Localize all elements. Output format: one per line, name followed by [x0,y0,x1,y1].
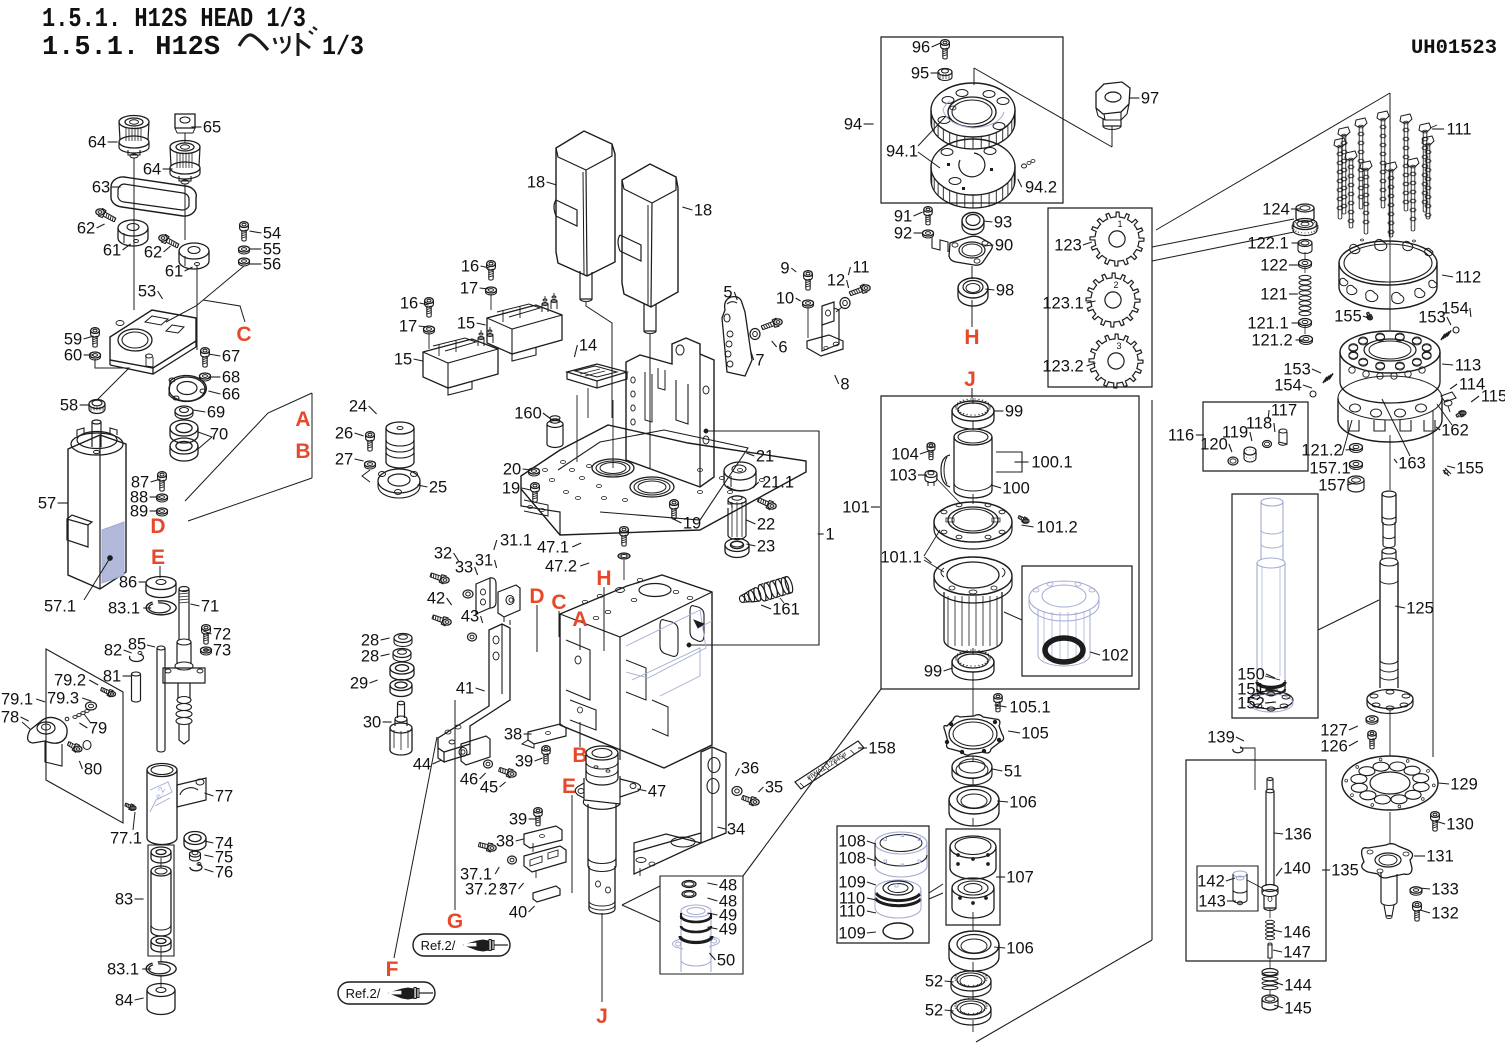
svg-text:52: 52 [925,1002,943,1020]
svg-text:36: 36 [741,760,759,778]
washer 47.2 [618,553,630,559]
knurled nut under 124 [1293,219,1317,230]
screw 115 [1460,411,1466,415]
plate 129 [1342,756,1438,810]
washer 33 [463,590,473,598]
svg-text:26: 26 [335,425,353,443]
svg-text:42: 42 [427,590,445,608]
svg-text:1: 1 [1117,219,1122,229]
bearing 98 [958,278,988,298]
lower frame block [560,575,712,768]
flange of shaft 125 [1367,690,1413,709]
box 78-80 parallelogram [46,649,123,823]
svg-text:98: 98 [996,282,1014,300]
part 24 damper stack [386,422,414,434]
svg-text:100: 100 [1002,480,1030,498]
valve 15 upper [487,305,562,354]
strip 158 [795,741,864,789]
leader 108 box to 107 [929,880,940,900]
svg-text:92: 92 [894,225,912,243]
svg-text:35: 35 [765,779,783,797]
box 101 [881,396,1139,689]
splined shaft 22 [728,496,746,504]
svg-text:152: 152 [1237,695,1265,713]
svg-text:147: 147 [1283,944,1311,962]
plate 38 upper [528,724,566,744]
washer 122 [1299,260,1312,267]
ring 83 bottom [151,936,171,946]
svg-text:124: 124 [1262,201,1290,219]
svg-text:12: 12 [827,272,845,290]
svg-text:115: 115 [1481,388,1505,406]
screw 35 [751,799,759,805]
spring 144 [1262,969,1278,976]
clip 82 [130,654,144,661]
washer 27 [365,461,376,467]
svg-text:64: 64 [88,134,106,152]
svg-text:17: 17 [460,280,478,298]
leader 48-50 box to box 101 [743,689,881,876]
leader 94.1 [918,116,946,146]
svg-text:9: 9 [780,260,789,278]
cylinder 83 main [151,866,171,876]
washer 89 [157,508,168,514]
nut 52 upper [951,971,991,991]
screw 132 [1413,902,1422,908]
wire 64a axis [133,158,135,215]
gear box 123 [1048,208,1152,387]
svg-text:90: 90 [995,237,1013,255]
screw 72 [202,625,211,631]
screw 54 [240,222,249,228]
washer 36 [732,787,742,796]
svg-text:139: 139 [1207,729,1235,747]
svg-text:1.5.1. H12S: 1.5.1. H12S [42,33,220,63]
plunger 47 top rings [586,746,618,760]
svg-text:31.1: 31.1 [500,532,532,550]
ring 118 [1263,441,1272,448]
screw 47.1 [620,527,629,533]
screw 126 [1368,731,1376,736]
svg-text:63: 63 [92,179,110,197]
box 18 right nipple [644,303,656,331]
svg-text:66: 66 [222,386,240,404]
lower frame top bore [639,584,671,597]
screw 39 mid [534,808,542,813]
leaders box150 to shaft [1318,600,1379,630]
svg-text:24: 24 [349,398,367,416]
wire 65 to pulley [184,133,186,143]
svg-text:21: 21 [756,448,774,466]
svg-text:93: 93 [994,214,1012,232]
svg-text:82: 82 [104,642,122,660]
svg-text:123: 123 [1054,237,1082,255]
svg-text:155: 155 [1334,308,1362,326]
wire to F [394,737,437,958]
svg-text:49: 49 [719,921,737,939]
svg-text:106: 106 [1009,794,1037,812]
washer 20 [529,468,540,474]
bracket 31 [476,578,490,614]
box 94 [881,37,1063,203]
rings 150-151 black [1257,682,1285,688]
shaft 30 [398,701,405,705]
screw 19 left [531,483,540,489]
svg-text:46: 46 [460,771,478,789]
svg-text:68: 68 [222,369,240,387]
box 116 [1203,402,1308,471]
svg-text:154: 154 [1274,377,1302,395]
wire from 18a [586,302,612,418]
splined cup below 101.1 [943,592,945,640]
screw 91 [924,207,932,212]
bracket 34 [701,747,726,843]
svg-text:F: F [386,958,399,981]
bearing 106 top [949,786,999,814]
screw 26 [366,432,375,438]
wire 97 and diagonal in 94 [1111,126,1113,147]
apex axis and diagonal [1389,93,1391,238]
wire from 18b [649,334,651,468]
nut 75 [190,851,201,857]
clip 76 [190,864,202,871]
washer 7 [750,329,760,340]
svg-text:67: 67 [222,348,240,366]
svg-text:77: 77 [215,788,233,806]
svg-text:101.1: 101.1 [880,549,921,567]
title katakana he [239,35,268,50]
plate 105 [944,715,1004,755]
block 113 feet [1348,420,1359,431]
screw 153 left [1323,373,1333,383]
washer 37.2 [508,856,517,864]
leader E to washer 86 [159,566,161,578]
svg-text:121.2: 121.2 [1301,442,1342,460]
collar 21 [724,462,756,480]
ring 120 [1228,457,1238,465]
holder 140 [1262,885,1278,892]
svg-text:100.1: 100.1 [1031,454,1072,472]
leaders 162 163 [1437,404,1452,425]
box 48-50 [660,876,743,974]
frame ghost outline blue [626,610,706,678]
washer 58 [89,400,105,409]
screw 16 lower [425,298,434,304]
svg-text:71: 71 [201,598,219,616]
svg-text:89: 89 [130,503,148,521]
svg-text:99: 99 [1005,403,1023,421]
axis 83 to 84 [160,858,162,868]
svg-text:129: 129 [1450,776,1478,794]
washer 43 [468,633,477,641]
plate 53 [110,310,196,368]
svg-text:79.1: 79.1 [1,691,33,709]
cup 142 blue [1233,871,1247,877]
screw 19 right [670,500,679,506]
screw 32 [441,577,449,583]
leader 57.1 [84,558,110,600]
svg-text:118: 118 [1246,415,1272,433]
zone C leader lines [203,300,245,322]
svg-text:Ref.2/: Ref.2/ [421,938,456,953]
leaders gearbox to 124 [1152,219,1294,247]
svg-text:31: 31 [475,552,493,570]
belt 63 [111,177,196,216]
lower frame right slots [660,620,678,657]
axis 129-131 [1389,812,1391,844]
box 18 right (accumulator) [622,164,678,307]
clamp on 77 [177,778,206,807]
svg-text:37: 37 [499,881,517,899]
bearing 29 upper [390,662,414,674]
screw 11 [862,285,870,291]
washer 88 [157,494,168,500]
svg-text:83.1: 83.1 [107,961,139,979]
svg-text:73: 73 [213,642,231,660]
svg-text:105: 105 [1021,725,1049,743]
screw 130 [1431,812,1440,818]
svg-text:106: 106 [1006,940,1034,958]
pin 79.1 [65,717,69,721]
svg-text:65: 65 [203,119,221,137]
svg-text:116: 116 [1168,427,1194,445]
svg-text:86: 86 [119,574,137,592]
cylinder 77 ghost lines blue [150,782,172,812]
svg-text:23: 23 [757,538,775,556]
screw 96 [941,40,950,46]
axis in box 101 [972,398,974,404]
cylinder 77 big [147,764,177,777]
svg-text:113: 113 [1455,357,1481,375]
screw 105.1 [994,694,1002,699]
svg-text:15: 15 [457,315,475,333]
motor 57 shaft [91,422,93,447]
bracket 41 [438,624,510,752]
svg-text:96: 96 [912,39,930,57]
o-ring 48a [682,881,696,888]
svg-text:27: 27 [335,451,353,469]
snap ring 83.1 upper [146,601,176,615]
svg-text:79.3: 79.3 [47,690,79,708]
plate 37 [524,846,566,872]
box 142-143 [1197,866,1258,911]
clip 100.1 bracket [995,450,1020,474]
svg-text:44: 44 [413,756,431,774]
svg-text:Ref.2/: Ref.2/ [346,986,381,1001]
gear 123.2 [1089,334,1143,388]
svg-text:131: 131 [1426,848,1454,866]
cylinder 84 [147,984,175,997]
bearing 106 bottom [949,931,999,959]
svg-text:79: 79 [89,720,107,738]
deck inner plate outline [558,430,748,520]
deck bore left [592,459,634,477]
svg-text:18: 18 [527,174,545,192]
svg-text:83.1: 83.1 [108,600,140,618]
svg-text:39: 39 [515,753,533,771]
ring 93 [962,213,984,230]
screws 94.2 [1022,164,1027,168]
svg-text:154: 154 [1441,300,1469,318]
svg-text:G: G [447,910,463,933]
axis 140-145 [1269,908,1271,918]
leader 77.1 [133,812,135,830]
112 cutouts [1347,285,1357,294]
svg-text:41: 41 [456,680,474,698]
leader 78 [22,722,30,729]
svg-text:15: 15 [394,351,412,369]
bearing 29 lower [390,680,412,691]
zone A-B bracket [185,393,312,501]
pulley 64 upper-left [119,116,149,129]
ref balloon F [338,982,435,1004]
svg-text:51: 51 [1004,763,1022,781]
svg-text:123.1: 123.1 [1042,295,1083,313]
svg-text:126: 126 [1320,738,1348,756]
svg-text:16: 16 [400,295,418,313]
bearing 74 [184,832,206,845]
plunger 47 clamp flange [575,783,584,798]
svg-text:52: 52 [925,973,943,991]
svg-text:155: 155 [1456,460,1484,478]
svg-text:E: E [562,775,576,798]
svg-text:40: 40 [509,904,527,922]
lever 5 [722,297,752,376]
axis stack 105-52 [972,756,974,762]
collar 61 left [118,220,148,236]
leader 94.1 label [881,123,892,125]
svg-text:77.1: 77.1 [110,830,142,848]
svg-text:108: 108 [838,833,866,851]
washer 46 [484,760,493,768]
washer 17 lower [424,326,435,332]
svg-text:D: D [150,515,165,538]
screw 6 [774,319,782,325]
svg-text:19: 19 [502,480,520,498]
bolt 71 lower section [177,639,191,645]
screw 67 [201,348,210,354]
svg-text:34: 34 [727,821,745,839]
svg-text:38: 38 [496,833,514,851]
bearing 70 upper [170,420,198,436]
circle 154 top [1453,327,1459,333]
part 119 [1244,447,1256,455]
svg-text:109: 109 [838,925,866,943]
svg-text:143: 143 [1198,893,1226,911]
svg-text:142: 142 [1197,873,1225,891]
screw 42 [443,619,451,625]
pin 117 [1279,430,1287,444]
ring 50 black [680,936,712,943]
cylinder 107a [950,836,996,858]
svg-text:145: 145 [1284,1000,1312,1018]
gear 123 [1090,212,1144,266]
nut 28 upper [394,634,412,643]
leader 10 down [807,307,809,338]
wing bolt 114 [1441,392,1456,402]
axis 124-121.2 [1304,252,1306,259]
svg-text:105.1: 105.1 [1009,699,1050,717]
ring 49 black second [681,926,711,932]
svg-text:163: 163 [1398,455,1426,473]
washer 12 [840,298,850,309]
svg-text:64: 64 [143,161,161,179]
svg-text:140: 140 [1283,860,1311,878]
part 81 pin [132,672,141,676]
rod 71 [179,587,189,592]
lower frame top holes [593,616,599,619]
svg-text:57: 57 [38,495,56,513]
ghost arrow [694,620,704,628]
spring 146 [1266,920,1275,923]
svg-text:53: 53 [138,283,156,301]
screw 103 [925,471,937,478]
dot 143 [1238,901,1243,905]
plunger 47 barrel [587,804,589,858]
strip 40 [533,886,560,902]
screw 62 left [96,209,104,215]
svg-text:A: A [572,608,587,631]
svg-text:A: A [295,408,310,431]
part 160 plug [547,421,563,428]
block 113 lower disc [1338,376,1442,420]
pin 147 [1268,944,1272,958]
svg-text:122: 122 [1260,257,1288,275]
wire 64b axis [184,184,186,240]
rod 71 threaded lower [177,683,179,698]
rod 85 [156,648,158,750]
svg-text:121.1: 121.1 [1247,315,1288,333]
wire 47 to J [601,913,603,1002]
svg-text:19: 19 [683,515,701,533]
svg-text:33: 33 [455,559,473,577]
ring 51 [952,756,992,778]
ghost cup 102 blue [1029,581,1099,615]
svg-text:135: 135 [1331,862,1359,880]
screw 80 [74,746,82,752]
svg-text:1: 1 [825,526,834,544]
svg-text:102: 102 [1101,647,1129,665]
deck left end block [521,489,560,535]
svg-text:22: 22 [757,516,775,534]
svg-text:60: 60 [64,347,82,365]
spring pin 153 top right [1441,330,1451,340]
cap 145 [1262,995,1278,1003]
svg-text:162: 162 [1441,422,1469,440]
washer 79.3 [86,702,97,710]
svg-text:14: 14 [579,337,597,355]
ring 99 top [952,401,994,421]
svg-text:25: 25 [429,479,447,497]
screw 77.1 [130,806,136,810]
screw 16 upper [487,261,496,267]
spring 79 [73,716,77,719]
svg-text:5: 5 [723,284,732,302]
box 135 [1186,760,1326,961]
svg-text:97: 97 [1141,90,1159,108]
screw 39 upper [542,746,550,751]
washer 133 [1410,887,1422,893]
motor tab [67,519,88,547]
svg-text:78: 78 [1,709,19,727]
svg-text:47: 47 [648,783,666,801]
washer 121.1 [1299,319,1312,326]
svg-text:103: 103 [889,467,917,485]
svg-text:7: 7 [755,352,764,370]
screw 59 [91,328,100,334]
svg-text:107: 107 [1006,869,1034,887]
svg-text:160: 160 [514,405,542,423]
